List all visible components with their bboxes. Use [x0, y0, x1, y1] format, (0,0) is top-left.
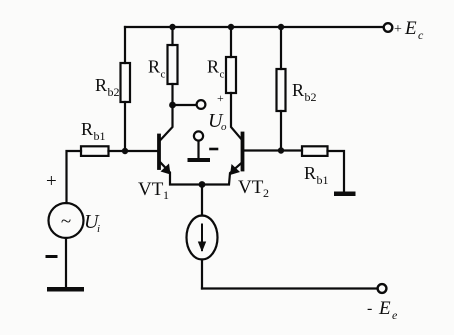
svg-text:+: + — [394, 22, 402, 37]
node rail-Rb2r — [278, 24, 284, 30]
wire Rb1 right to ground — [328, 151, 345, 191]
resistor Rb2 right — [277, 69, 286, 111]
resistor Rc right — [226, 57, 236, 93]
transistor VT2 collector — [231, 93, 243, 141]
arrow VT2 emitter — [230, 164, 240, 175]
resistor Rb1 left — [81, 146, 109, 156]
svg-text:R: R — [95, 75, 107, 95]
wire base right — [243, 149, 303, 151]
svg-text:-: - — [367, 300, 372, 317]
label Rc right — [207, 57, 225, 81]
svg-text:b2: b2 — [305, 90, 317, 104]
node emitters — [199, 181, 206, 188]
label VT1 — [138, 179, 169, 202]
label Rb1 left — [81, 119, 106, 143]
ground under Ui — [47, 287, 84, 292]
terminal -Ee — [378, 284, 387, 293]
svg-text:1: 1 — [163, 188, 169, 202]
svg-text:c: c — [161, 69, 166, 81]
transistor VT1 emitter — [160, 162, 202, 185]
label +Ec — [394, 18, 424, 42]
label Rb2 left — [95, 75, 120, 99]
label - of Uo — [211, 148, 218, 151]
node collector VT1 — [169, 102, 176, 109]
wire output tap — [173, 104, 197, 106]
resistor Rb1 right — [302, 146, 328, 156]
svg-text:R: R — [207, 57, 219, 77]
svg-text:VT: VT — [238, 177, 264, 198]
wire input corner — [67, 151, 82, 203]
svg-text:+: + — [46, 171, 57, 192]
svg-text:R: R — [304, 163, 316, 183]
wire Rc left top — [171, 27, 173, 45]
transistor VT1 collector — [160, 105, 173, 141]
current source I — [187, 216, 218, 260]
wire Rc right top — [230, 27, 232, 57]
resistor Rb2 left — [121, 63, 131, 102]
label Rb1 right — [304, 163, 329, 187]
transistor VT2 emitter — [202, 162, 243, 185]
wire Ui to ground — [65, 238, 67, 287]
label + of Uo — [217, 91, 224, 105]
wire Uo minus to ground — [197, 141, 199, 158]
node rail-Rc2 — [228, 24, 234, 30]
label + of Ui — [46, 171, 57, 192]
svg-text:VT: VT — [138, 179, 164, 200]
svg-text:o: o — [221, 121, 227, 133]
source Ui — [49, 203, 84, 238]
resistor Rc left — [168, 45, 178, 84]
svg-text:E: E — [378, 298, 391, 319]
svg-text:c: c — [418, 28, 424, 42]
wire base left — [109, 150, 160, 152]
svg-text:E: E — [404, 18, 417, 39]
svg-text:b1: b1 — [94, 129, 106, 143]
label -Ee — [367, 298, 398, 322]
terminal Uo minus — [194, 131, 203, 140]
label Uo — [208, 110, 227, 133]
label ~ inside Ui — [61, 211, 71, 232]
label Ui — [84, 211, 100, 235]
node base right — [278, 147, 284, 153]
svg-text:e: e — [392, 308, 398, 322]
svg-text:R: R — [292, 80, 304, 100]
transistor VT2 base bar — [241, 134, 245, 170]
arrow of current source — [198, 225, 206, 253]
arrow VT1 emitter — [161, 164, 171, 175]
transistor VT1 base bar — [157, 136, 161, 169]
wire left branch top — [124, 27, 126, 63]
wire Rb2 right bottom — [280, 111, 282, 151]
label VT2 — [238, 177, 269, 200]
node rail-Rc1 — [169, 24, 175, 30]
wire Rc left bottom — [171, 84, 173, 105]
terminal +Ec — [384, 23, 393, 32]
svg-text:+: + — [217, 91, 224, 105]
svg-text:~: ~ — [61, 211, 71, 232]
label - of Ui — [47, 255, 56, 258]
svg-text:R: R — [81, 119, 93, 139]
svg-text:i: i — [97, 223, 100, 235]
wire current source to bottom rail — [201, 260, 203, 289]
ground right — [334, 192, 356, 197]
wire left branch bottom — [124, 102, 126, 151]
svg-text:2: 2 — [263, 186, 269, 200]
wire emitters to current source — [201, 185, 203, 216]
svg-text:R: R — [148, 57, 160, 77]
wire top supply rail — [125, 26, 383, 28]
label Rb2 right — [292, 80, 317, 104]
wire bottom rail — [202, 287, 378, 289]
terminal Uo plus — [197, 100, 206, 109]
svg-text:b2: b2 — [108, 85, 120, 99]
wire Rb2 right top — [280, 27, 282, 69]
label Rc left — [148, 57, 166, 81]
node base left — [122, 148, 128, 154]
svg-text:c: c — [220, 69, 225, 81]
ground of Uo — [188, 158, 211, 162]
svg-text:b1: b1 — [317, 173, 329, 187]
